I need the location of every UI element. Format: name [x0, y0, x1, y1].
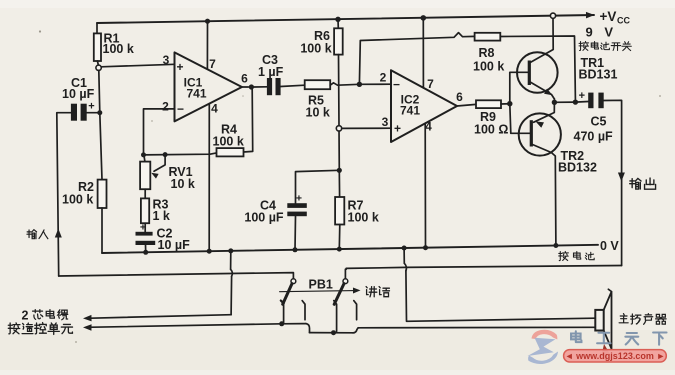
resistor R7 — [335, 197, 344, 225]
wire: pin3 node to IC2 pin 3 — [342, 127, 391, 129]
svg-text:2: 2 — [162, 100, 169, 114]
junction: contact1a/cable — [279, 321, 284, 326]
junction: C1/R1/R2 node — [97, 110, 102, 115]
wire: pin2 node down to RV1 — [144, 155, 145, 162]
svg-text:741: 741 — [186, 87, 206, 101]
wire: C5 right corner down right edge — [604, 100, 622, 265]
wire: node B to node C — [554, 101, 575, 103]
wire: cable upper conductor with arrow — [86, 315, 231, 319]
svg-text:BD131: BD131 — [579, 68, 618, 82]
label 输出 (output) — [630, 178, 641, 189]
wire: 0V rail down (hops output line) to speaker top wire — [403, 248, 405, 263]
svg-text:100 k: 100 k — [300, 42, 331, 56]
wire: IC2 pin 7 to rail — [422, 18, 424, 88]
wire: R5 to IC2 pin2 node (hops divider line) — [330, 83, 359, 85]
svg-text:0 V: 0 V — [600, 239, 619, 253]
junction: IC2 pin2 node — [357, 82, 362, 87]
wire: pin2 node up, corner right to R8 (hops pin7) — [359, 33, 474, 85]
capacitor C2 (electrolytic) — [136, 232, 153, 236]
wire: IC1 pin 4 to 0V rail — [208, 104, 210, 252]
node: R1/C1/pin3 (open circle) — [96, 65, 101, 70]
wire: node to IC1 pin 3 — [101, 64, 174, 67]
wire: IC1 pin 2 left corner down — [144, 109, 175, 155]
TR1 emitter with arrow — [529, 82, 554, 100]
TR2 collector — [531, 144, 556, 246]
capacitor C4 (electrolytic) — [287, 203, 307, 208]
svg-text:1 µF: 1 µF — [258, 65, 284, 79]
wire: R9 to base node — [501, 103, 510, 105]
svg-text:470 µF: 470 µF — [574, 130, 614, 144]
junction: IC1 pin6 — [249, 84, 254, 89]
label 接电池开关 (battery switch) — [579, 41, 589, 50]
wire: 0V rail — [102, 245, 598, 253]
wire: C3 to R5 — [281, 85, 305, 86]
svg-text:100 k: 100 k — [103, 42, 134, 56]
junction: TR2 collector/0V — [553, 243, 558, 248]
wire: IC2 output to R9 — [457, 104, 476, 106]
TR2 emitter (arrow into base) — [534, 102, 555, 122]
PB1 pole 1 lever — [283, 284, 292, 305]
svg-text:100 k: 100 k — [348, 211, 379, 225]
svg-text:10 k: 10 k — [171, 177, 195, 191]
wire: lower bus with step-downs — [282, 323, 306, 325]
junction: rail/IC2 pin7 — [421, 15, 427, 21]
svg-text:2: 2 — [22, 309, 29, 323]
PB1 pole 2 lever — [334, 284, 344, 305]
wire: cable lower conductor with arrow — [86, 324, 282, 328]
svg-text:10 µF: 10 µF — [158, 238, 191, 252]
svg-text:3: 3 — [382, 115, 389, 129]
wire: junction left corner down to C4 — [296, 170, 340, 203]
wire: pin6 down to R4 right — [244, 90, 253, 153]
wire: RV1 to R3 — [144, 189, 146, 198]
TR1 collector — [529, 18, 553, 63]
wire: R1 bottom to node — [97, 61, 98, 65]
paper specks — [39, 30, 41, 32]
wire: input line to pole1 — [59, 273, 294, 279]
wire: node C to C5 — [575, 101, 588, 104]
wire: R3 to C2 — [144, 223, 146, 232]
wire: pin6 to C3 — [254, 86, 267, 88]
svg-text:1 k: 1 k — [153, 209, 170, 223]
svg-text:+: + — [579, 90, 585, 102]
op-amp IC2 741 triangle — [391, 70, 457, 142]
wire: C4 to 0V rail — [294, 216, 297, 250]
svg-text:4: 4 — [425, 120, 432, 134]
label 接电池 (to battery) — [559, 251, 569, 260]
PB1 contact 2a — [334, 301, 337, 332]
wire: pin2 node to R4 — [144, 153, 217, 155]
label 输入 (input) — [27, 230, 37, 239]
watermark logo: blue bottom arc — [528, 352, 558, 365]
svg-text:+: + — [140, 222, 146, 234]
junction: RV1 wiper tap — [163, 152, 168, 157]
wire: rail corner down to R1 — [96, 23, 98, 33]
svg-text:R8: R8 — [479, 46, 495, 60]
junction: pin4/0V — [207, 249, 212, 254]
svg-text:100 k: 100 k — [213, 135, 244, 149]
junction: C4/0V — [293, 247, 298, 252]
resistor R3 — [141, 198, 149, 223]
svg-text:6: 6 — [241, 72, 248, 86]
wire: C1 left, corner, down input line — [57, 113, 71, 276]
PB1 contact 1b — [302, 301, 305, 320]
junction: 0V/speaker branch — [402, 246, 407, 251]
svg-text:PB1: PB1 — [309, 278, 333, 292]
svg-text:9 V: 9 V — [586, 25, 618, 40]
svg-text:+: + — [394, 122, 401, 136]
wire: R2 bottom to 0V rail — [101, 208, 103, 253]
wire: bus to speaker lower terminal — [358, 326, 594, 329]
junction: rail/IC1 pin7 — [205, 19, 210, 24]
watermark red arrow — [601, 344, 610, 361]
svg-text:◄ www.dgjs123.com ►: ◄ www.dgjs123.com ► — [565, 351, 666, 361]
junction: rail/TR1 collector (open) — [550, 13, 555, 18]
svg-text:100 k: 100 k — [62, 193, 93, 207]
watermark logo: red top arc — [532, 330, 558, 340]
wire: node down to R2 — [100, 113, 102, 180]
svg-text:100 Ω: 100 Ω — [474, 123, 508, 137]
svg-text:+: + — [296, 193, 302, 205]
resistor R2 — [98, 180, 107, 208]
switch PB1 pole 2 pivot — [343, 279, 348, 284]
wire: TR1 emitter to node B — [553, 99, 555, 102]
svg-text:+: + — [88, 101, 94, 113]
PB1 contact 1a — [281, 301, 284, 324]
svg-text:741: 741 — [400, 104, 420, 118]
wire: IC2 pin 4 to 0V rail — [424, 123, 426, 247]
wire: base node down to TR2 base — [510, 104, 531, 134]
resistor R4 — [217, 148, 244, 156]
transistor TR1 circle — [517, 52, 558, 93]
wire: IC1 output apex to junction — [242, 86, 249, 88]
op-amp IC1 741 triangle — [175, 52, 242, 121]
junction: emitters node B — [552, 100, 557, 105]
wire: node down to C1 node — [99, 70, 100, 112]
svg-text:6: 6 — [456, 90, 463, 104]
junction: divider/C4/R7 — [337, 168, 342, 173]
wire: rail down to R6 — [337, 19, 339, 28]
switch PB1 pole 1 pivot — [291, 279, 296, 284]
capacitor C3 — [267, 78, 272, 95]
junction: contact2a/bus — [331, 330, 336, 335]
potentiometer RV1 — [140, 162, 150, 190]
wire: C1 right to node — [87, 112, 100, 114]
wire: +Vcc top rail — [97, 15, 594, 23]
transistor TR2 circle — [519, 113, 561, 155]
resistor R8 — [475, 33, 501, 41]
svg-text:4: 4 — [211, 102, 218, 116]
junction: rail/R6 — [335, 17, 340, 22]
label 接遥控单元 (to remote unit) — [8, 323, 20, 334]
PB1 actuator link with arrow 讲话 (talk) — [280, 291, 355, 292]
watermark text 电工天下 — [571, 331, 581, 342]
svg-text:C5: C5 — [591, 115, 607, 129]
svg-text:+V: +V — [600, 9, 617, 24]
PB1 contact 2b — [354, 301, 357, 320]
wire: divider junction down to R7 — [338, 170, 340, 197]
node: divider/pin3 (open circle) — [336, 126, 341, 131]
+Vcc arrowhead — [586, 12, 595, 19]
RV1 wiper arrow — [154, 155, 165, 172]
svg-text:7: 7 — [427, 77, 434, 91]
resistor R1 — [94, 33, 101, 61]
wire: R7 to 0V rail — [338, 225, 341, 250]
watermark url box — [564, 350, 667, 362]
resistor R6 — [334, 28, 343, 54]
wire: output line left to pole2 — [345, 266, 621, 279]
svg-text:−: − — [393, 78, 400, 92]
svg-text:2: 2 — [380, 71, 387, 85]
wire: base node up to TR1 base — [510, 72, 529, 103]
wire: R6 down through pin3 node to R7 node — [338, 55, 341, 171]
output arrow down — [618, 173, 625, 182]
input arrow on line — [55, 229, 62, 238]
wire: C2 to 0V rail — [145, 245, 147, 252]
capacitor C5 (electrolytic) — [588, 93, 593, 109]
TR2 base bar — [530, 120, 533, 146]
junction: pin2 node — [141, 152, 146, 157]
svg-text:BD132: BD132 — [558, 161, 597, 175]
TR1 base bar — [528, 61, 531, 86]
svg-text:10 µF: 10 µF — [62, 87, 95, 101]
junction: C2/0V — [143, 250, 148, 255]
wire: node to IC2 pin 2 — [359, 83, 391, 85]
svg-text:−: − — [177, 102, 184, 116]
label 主扬声器 — [619, 314, 628, 323]
junction: R7/0V — [337, 247, 342, 252]
speaker 主扬声器 — [595, 310, 603, 331]
capacitor C1 (electrolytic) — [71, 104, 77, 121]
svg-text:+: + — [176, 60, 183, 74]
svg-text:CC: CC — [617, 16, 630, 26]
watermark logo: blue sigma zigzag — [528, 338, 556, 356]
junction: base node A — [507, 101, 512, 106]
svg-text:10 k: 10 k — [306, 106, 330, 120]
svg-text:100 µF: 100 µF — [244, 211, 284, 225]
svg-text:7: 7 — [209, 57, 216, 71]
junction: output node C — [573, 99, 578, 104]
wire: R8 right, corner down to output node — [500, 36, 575, 99]
junction: pin4/0V — [423, 245, 428, 250]
svg-text:3: 3 — [163, 53, 170, 67]
resistor R9 — [476, 100, 501, 108]
svg-text:100 k: 100 k — [473, 60, 504, 74]
wire: IC1 pin 7 to rail — [206, 21, 208, 69]
junction: 0V/cable — [228, 248, 233, 253]
wire: 0V rail down (hops input line) to cable corner — [230, 251, 232, 269]
resistor R5 — [305, 80, 331, 89]
